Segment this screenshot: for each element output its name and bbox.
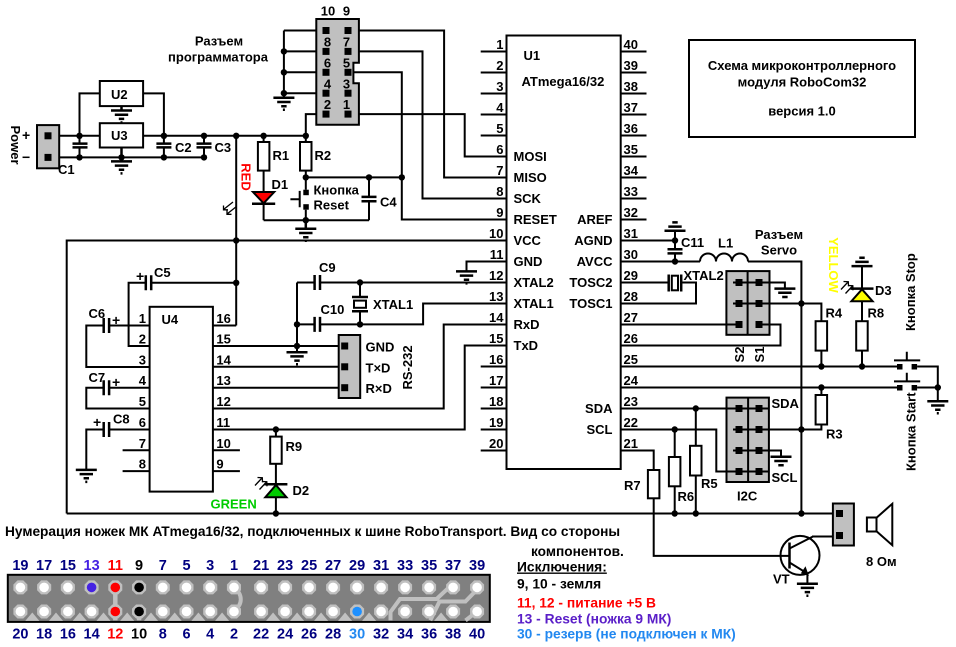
svg-text:34: 34 xyxy=(397,627,413,643)
svg-text:7: 7 xyxy=(343,35,350,50)
LED D3 yellow xyxy=(851,289,874,322)
wire Start net pin24 xyxy=(621,387,897,389)
U1 pin 35 stub xyxy=(621,156,647,158)
wire SDA net pin23 xyxy=(621,408,768,410)
wire pin21 to R7 xyxy=(621,451,654,471)
svg-text:20: 20 xyxy=(12,627,28,643)
LED D1 emission arrows xyxy=(224,202,237,214)
capacitor C10 xyxy=(315,317,320,332)
node R6 bottom on +5V rail xyxy=(672,510,678,516)
svg-text:34: 34 xyxy=(624,163,639,178)
svg-text:22: 22 xyxy=(253,627,269,643)
trace to pin 39 xyxy=(430,590,477,621)
svg-text:13: 13 xyxy=(84,558,100,574)
svg-text:8: 8 xyxy=(324,35,331,50)
capacitor C6 xyxy=(104,318,109,333)
wire U4 pin12 to MCU RxD pin14 xyxy=(213,325,507,409)
svg-text:15: 15 xyxy=(489,331,503,346)
svg-text:MISO: MISO xyxy=(514,170,547,185)
svg-text:C10: C10 xyxy=(321,302,345,317)
svg-text:3: 3 xyxy=(139,353,146,368)
svg-text:14: 14 xyxy=(489,310,504,325)
svg-text:11, 12 - питание +5 В: 11, 12 - питание +5 В xyxy=(517,596,656,611)
node buttons common xyxy=(935,384,941,390)
node prog gnd pin8 xyxy=(281,48,287,54)
wire C7 net U4 pin4 and pin5 xyxy=(86,388,149,409)
svg-text:XTAL2: XTAL2 xyxy=(514,275,554,290)
ground of programmator connector xyxy=(273,98,294,110)
svg-text:24: 24 xyxy=(624,373,639,388)
U1 pin 17 stub xyxy=(481,387,507,389)
wire Start to right column xyxy=(917,387,938,389)
capacitor C4 xyxy=(362,177,377,220)
LED D3 emission arrows xyxy=(841,282,853,294)
capacitor C2 xyxy=(156,136,171,158)
trace to pin 37 xyxy=(391,587,454,620)
node +5V R2 / prog pin2 xyxy=(303,133,309,139)
svg-text:31: 31 xyxy=(624,226,638,241)
svg-text:11: 11 xyxy=(108,558,123,574)
svg-text:C11: C11 xyxy=(681,235,704,250)
node AVCC servo junction xyxy=(798,300,804,306)
svg-text:SCL: SCL xyxy=(587,422,613,437)
svg-text:8 Ом: 8 Ом xyxy=(866,554,897,569)
svg-text:Кнопка: Кнопка xyxy=(314,183,360,198)
wire prog pin8 to ground bus xyxy=(284,50,323,52)
wire GND pin11 xyxy=(467,262,507,272)
resistor R9 xyxy=(270,430,282,485)
U1 pin 5 stub xyxy=(481,135,507,137)
svg-text:XTAL2: XTAL2 xyxy=(684,268,724,283)
svg-text:6: 6 xyxy=(182,627,190,643)
crystal XTAL2 xyxy=(669,275,682,292)
wire U4 pin11 to MCU TxD pin15 xyxy=(213,346,507,430)
svg-text:−: − xyxy=(22,149,30,165)
svg-text:модуля RoboCom32: модуля RoboCom32 xyxy=(738,75,867,90)
wire servo S1 signal to pin26 xyxy=(621,325,781,346)
svg-text:U3: U3 xyxy=(111,128,128,143)
svg-text:20: 20 xyxy=(489,436,503,451)
ground of reset button xyxy=(295,220,316,241)
svg-text:6: 6 xyxy=(139,415,146,430)
ground of buttons xyxy=(927,401,948,413)
svg-text:22: 22 xyxy=(624,415,638,430)
regulator U3 xyxy=(100,123,143,147)
svg-text:39: 39 xyxy=(469,558,485,574)
wire XTAL2 net pin29 xyxy=(621,282,668,284)
svg-text:7: 7 xyxy=(159,558,167,574)
svg-text:C6: C6 xyxy=(89,306,106,321)
svg-text:8: 8 xyxy=(139,457,146,472)
svg-text:RxD: RxD xyxy=(514,317,540,332)
svg-text:TOSC1: TOSC1 xyxy=(569,296,612,311)
svg-text:33: 33 xyxy=(397,558,413,574)
node +5V at I2C row xyxy=(798,426,804,432)
svg-text:Кнопка Start: Кнопка Start xyxy=(904,392,919,471)
svg-text:R9: R9 xyxy=(286,439,303,454)
U1 pin 32 stub AREF xyxy=(621,219,647,221)
node reset at C4 top xyxy=(366,174,372,180)
node R5 bottom on +5V rail xyxy=(693,510,699,516)
svg-text:GREEN: GREEN xyxy=(211,497,257,512)
svg-text:R1: R1 xyxy=(273,148,290,163)
svg-text:+: + xyxy=(112,312,120,328)
ground of C8 xyxy=(76,470,97,482)
svg-text:программатора: программатора xyxy=(168,50,269,65)
node reset at prog pin5 column xyxy=(399,174,405,180)
U1 pin 20 stub xyxy=(481,450,507,452)
svg-text:+: + xyxy=(93,414,101,430)
wire U4 pin16 to +5V column xyxy=(213,325,236,327)
svg-text:27: 27 xyxy=(325,558,341,574)
svg-text:Нумерация ножек МК ATmega16/32: Нумерация ножек МК ATmega16/32, подключе… xyxy=(5,524,620,539)
svg-text:15: 15 xyxy=(60,558,76,574)
svg-text:8: 8 xyxy=(496,184,503,199)
U1 pin 3 stub xyxy=(481,93,507,95)
wire prog ground bus vertical xyxy=(283,31,285,98)
svg-text:Разъем: Разъем xyxy=(195,34,243,49)
ground under U3 xyxy=(111,148,132,174)
svg-text:2: 2 xyxy=(496,58,503,73)
wire servo S2 signal pin27 xyxy=(621,324,742,326)
capacitor C7 xyxy=(104,380,109,395)
svg-text:9: 9 xyxy=(216,457,223,472)
svg-text:R3: R3 xyxy=(826,427,843,442)
svg-text:R2: R2 xyxy=(315,148,332,163)
svg-text:VCC: VCC xyxy=(514,233,542,248)
U4 pin 9 stub xyxy=(213,470,240,472)
svg-text:C9: C9 xyxy=(319,260,336,275)
svg-text:27: 27 xyxy=(624,310,638,325)
wire C5 to +5V column xyxy=(152,282,236,284)
svg-text:1: 1 xyxy=(230,558,238,574)
svg-text:U4: U4 xyxy=(162,312,179,327)
svg-text:SDA: SDA xyxy=(772,396,800,411)
node U3 ground tab on minus rail xyxy=(118,154,124,160)
trace from pin 40 xyxy=(466,612,478,621)
node minus / C1 xyxy=(76,154,82,160)
svg-text:3: 3 xyxy=(206,558,214,574)
node C11 bottom on AVCC xyxy=(672,258,678,264)
svg-text:40: 40 xyxy=(624,37,638,52)
U1 pin 33 stub xyxy=(621,198,647,200)
resistor R8 xyxy=(856,321,868,350)
wire +5V vertical right column xyxy=(800,304,802,514)
svg-text:15: 15 xyxy=(216,332,230,347)
svg-text:8: 8 xyxy=(159,627,167,643)
svg-text:D1: D1 xyxy=(272,177,289,192)
svg-text:17: 17 xyxy=(36,558,52,574)
node C2 bottom xyxy=(161,154,167,160)
svg-text:30: 30 xyxy=(349,627,365,643)
wire Stop to right column xyxy=(917,367,938,388)
svg-text:D2: D2 xyxy=(293,483,310,498)
node R9 top on TxD net xyxy=(273,426,279,432)
svg-text:C5: C5 xyxy=(154,265,171,280)
U4 right pin numbers xyxy=(216,311,231,472)
U4 pin 7 stub xyxy=(123,449,150,451)
node XTAL1 bottom xyxy=(357,321,363,327)
MCU U1 ATmega16/32 body xyxy=(507,36,621,470)
svg-text:33: 33 xyxy=(624,184,638,199)
svg-text:1: 1 xyxy=(343,97,350,112)
node +5V at bottom rail xyxy=(798,510,804,516)
node C5 right on +5V column xyxy=(233,280,239,286)
wire VCC rail pin10 around left side xyxy=(67,241,507,514)
wire C8 net U4 pin6 to ground xyxy=(86,430,149,470)
svg-text:16: 16 xyxy=(216,311,230,326)
servo pin squares xyxy=(736,279,763,328)
resistor R5 xyxy=(690,409,702,514)
svg-text:36: 36 xyxy=(421,627,437,643)
svg-text:25: 25 xyxy=(624,352,638,367)
connector Power xyxy=(37,125,59,168)
svg-text:Исключения:: Исключения: xyxy=(517,560,607,575)
wire U4 pin14 to RS-232 TxD xyxy=(213,366,341,368)
wire prog pin10 to ground bus xyxy=(284,30,323,32)
svg-text:38: 38 xyxy=(624,79,638,94)
svg-text:R5: R5 xyxy=(701,476,718,491)
svg-text:C7: C7 xyxy=(89,370,106,385)
svg-text:Power: Power xyxy=(8,125,23,164)
ground above D3 xyxy=(861,266,863,289)
wire C10 net to MCU XTAL1 pin13 xyxy=(297,304,507,325)
svg-text:Схема микроконтроллерного: Схема микроконтроллерного xyxy=(708,58,896,73)
U1 pin 2 stub xyxy=(481,72,507,74)
svg-text:18: 18 xyxy=(36,627,52,643)
LED D2 green xyxy=(264,484,287,513)
svg-text:14: 14 xyxy=(216,353,231,368)
resistor R2 xyxy=(300,136,312,171)
wire C9 net to MCU XTAL2 pin12 xyxy=(297,282,507,284)
wire U4 pin13 to RS-232 RxD xyxy=(213,387,341,389)
svg-text:17: 17 xyxy=(489,373,503,388)
svg-text:7: 7 xyxy=(496,163,503,178)
svg-text:T×D: T×D xyxy=(366,360,391,375)
svg-text:12: 12 xyxy=(489,268,503,283)
svg-text:12: 12 xyxy=(216,394,230,409)
svg-text:16: 16 xyxy=(489,352,503,367)
svg-text:21: 21 xyxy=(253,558,269,574)
wire prog pin1 to MCU MOSI pin6 xyxy=(352,114,507,156)
crystal XTAL1 xyxy=(352,283,368,325)
svg-text:5: 5 xyxy=(182,558,190,574)
inductor L1 xyxy=(700,254,748,262)
wire U2 output branch xyxy=(143,93,164,135)
node C3 bottom xyxy=(201,154,207,160)
svg-text:30 - резерв (не подключен к МК: 30 - резерв (не подключен к МК) xyxy=(517,627,736,642)
servo row2 +5V wire xyxy=(733,303,801,305)
node R3 on Start net xyxy=(818,384,824,390)
node prog gnd pin6 xyxy=(281,69,287,75)
wire +5V bottom rail xyxy=(67,513,836,515)
wire prog pin9 to MCU MISO pin7 xyxy=(352,31,507,178)
svg-text:Кнопка Stop: Кнопка Stop xyxy=(903,253,918,331)
svg-text:25: 25 xyxy=(301,558,317,574)
ground above C11 xyxy=(674,231,676,241)
svg-text:AVCC: AVCC xyxy=(577,254,613,269)
svg-text:30: 30 xyxy=(624,247,638,262)
svg-text:1: 1 xyxy=(139,311,146,326)
node VCC rail branch to +5V xyxy=(233,237,239,243)
wire U4 pin15 to RS-232 GND xyxy=(213,345,341,347)
svg-text:37: 37 xyxy=(445,558,461,574)
svg-text:+: + xyxy=(22,127,30,143)
svg-text:28: 28 xyxy=(325,627,341,643)
svg-text:1: 1 xyxy=(496,37,503,52)
svg-text:39: 39 xyxy=(624,58,638,73)
ground of RS-232 xyxy=(287,352,308,364)
svg-text:GND: GND xyxy=(366,340,395,355)
wire SCL net pin22 xyxy=(621,430,768,472)
resistor R7 xyxy=(648,470,660,498)
svg-text:RS-232: RS-232 xyxy=(400,345,415,389)
svg-text:5: 5 xyxy=(139,394,146,409)
svg-text:10: 10 xyxy=(131,627,147,643)
wire XTAL2 to TOSC1 pin28 xyxy=(621,283,696,304)
svg-text:I2C: I2C xyxy=(737,489,758,504)
connector speaker xyxy=(833,504,854,546)
U1 left pin numbers 1-20 xyxy=(489,37,504,451)
svg-text:23: 23 xyxy=(624,394,638,409)
node C3 top xyxy=(201,133,207,139)
svg-text:SDA: SDA xyxy=(585,401,613,416)
U1 pin 4 stub xyxy=(481,114,507,116)
svg-text:6: 6 xyxy=(324,55,331,70)
node C11 top / ground xyxy=(672,237,678,243)
svg-text:AGND: AGND xyxy=(574,233,612,248)
svg-text:версия 1.0: версия 1.0 xyxy=(768,104,835,119)
title box xyxy=(689,40,915,137)
svg-text:3: 3 xyxy=(496,79,503,94)
wire buttons to ground xyxy=(937,388,939,402)
capacitor C11 xyxy=(668,241,683,262)
U4 pin 10 stub xyxy=(213,449,240,451)
wire C5 net U4 pin2 xyxy=(129,283,150,346)
svg-text:10: 10 xyxy=(489,226,503,241)
svg-text:29: 29 xyxy=(349,558,365,574)
wire R4 from +5V node xyxy=(801,304,821,322)
svg-text:U1: U1 xyxy=(524,48,541,63)
svg-text:TOSC2: TOSC2 xyxy=(569,275,612,290)
svg-text:32: 32 xyxy=(624,205,638,220)
svg-text:26: 26 xyxy=(624,331,638,346)
svg-text:14: 14 xyxy=(84,627,100,643)
node D2 on +5V bottom rail xyxy=(273,510,279,516)
I2C row4 SCL inner wire xyxy=(727,471,769,473)
svg-text:Reset: Reset xyxy=(314,198,350,213)
svg-text:5: 5 xyxy=(496,121,503,136)
ground of servo row1 xyxy=(774,289,795,297)
svg-text:R6: R6 xyxy=(678,489,695,504)
regulator U2 xyxy=(100,81,143,106)
U4 pin 8 stub xyxy=(123,470,150,472)
ground of VT emitter xyxy=(797,584,818,596)
svg-text:16: 16 xyxy=(60,627,76,643)
wire prog pin4 to ground bus xyxy=(284,92,323,94)
svg-text:12: 12 xyxy=(107,627,123,643)
svg-text:C8: C8 xyxy=(113,412,130,427)
transistor VT xyxy=(781,536,834,584)
IC U4 body xyxy=(150,307,213,492)
connector Servo body xyxy=(726,271,769,335)
svg-text:7: 7 xyxy=(139,436,146,451)
svg-text:R4: R4 xyxy=(826,306,843,321)
svg-text:S1: S1 xyxy=(752,347,767,363)
svg-text:31: 31 xyxy=(373,558,389,574)
svg-text:11: 11 xyxy=(490,247,504,262)
wire AVCC pin30 to L1 xyxy=(621,261,700,263)
svg-text:36: 36 xyxy=(624,121,638,136)
svg-text:VT: VT xyxy=(773,572,790,587)
wire C9 C10 left vertical to ground xyxy=(296,283,298,347)
svg-text:D3: D3 xyxy=(875,283,892,298)
node R6 top on SCL xyxy=(672,426,678,432)
wire +5V down to VCC rail and U4 pin16 xyxy=(235,136,237,326)
svg-text:9, 10 - земля: 9, 10 - земля xyxy=(517,577,601,592)
svg-text:XTAL1: XTAL1 xyxy=(514,296,554,311)
svg-text:R×D: R×D xyxy=(366,381,392,396)
svg-text:ATmega16/32: ATmega16/32 xyxy=(522,74,605,89)
svg-text:4: 4 xyxy=(206,627,214,643)
svg-text:+: + xyxy=(136,268,144,284)
button Кнопка Stop xyxy=(894,352,920,370)
U1 pin 16 stub xyxy=(481,366,507,368)
svg-text:4: 4 xyxy=(496,100,504,115)
servo row1 ground wire xyxy=(733,283,785,289)
wire R8 bottom to Stop net xyxy=(861,351,863,367)
ground of I2C xyxy=(771,457,792,465)
wire U2 input branch xyxy=(80,93,101,135)
svg-text:9: 9 xyxy=(135,558,143,574)
U1 pin 18 stub xyxy=(481,408,507,410)
svg-text:18: 18 xyxy=(489,394,503,409)
svg-text:SCL: SCL xyxy=(772,470,798,485)
ground of MCU pin11 xyxy=(456,271,477,283)
connector I2C body xyxy=(727,398,769,482)
U1 pin 36 stub xyxy=(621,135,647,137)
svg-text:19: 19 xyxy=(489,415,503,430)
resistor R1 xyxy=(258,136,270,171)
svg-text:26: 26 xyxy=(301,627,317,643)
svg-text:3: 3 xyxy=(343,76,350,91)
wire prog pin7 to MCU SCK pin8 xyxy=(352,51,507,198)
svg-text:R8: R8 xyxy=(868,306,885,321)
strip pin numbers xyxy=(12,558,485,643)
trace pins 11-12 ground link xyxy=(113,587,118,620)
node +5V to VCC rail branch xyxy=(233,133,239,139)
svg-text:13 - Reset (ножка 9 МК): 13 - Reset (ножка 9 МК) xyxy=(517,612,671,627)
U1 pin 34 stub xyxy=(621,177,647,179)
RoboTransport bus strip body xyxy=(8,575,490,622)
svg-text:13: 13 xyxy=(216,373,230,388)
svg-text:21: 21 xyxy=(624,436,638,451)
U1 pin 37 stub xyxy=(621,114,647,116)
svg-text:9: 9 xyxy=(343,4,350,19)
U1 pin 19 stub xyxy=(481,429,507,431)
resistor R6 xyxy=(669,430,681,514)
svg-text:C2: C2 xyxy=(175,140,192,155)
LED D2 emission arrows xyxy=(255,478,267,490)
U1 pin 40 stub xyxy=(621,51,647,53)
speaker icon xyxy=(867,504,892,545)
wire reset ground segment D1 to C4 xyxy=(264,219,369,221)
capacitor C9 xyxy=(315,275,320,290)
svg-text:2: 2 xyxy=(230,627,238,643)
resistor R4 xyxy=(816,321,828,350)
I2C pin squares xyxy=(736,405,763,475)
svg-text:6: 6 xyxy=(496,142,503,157)
